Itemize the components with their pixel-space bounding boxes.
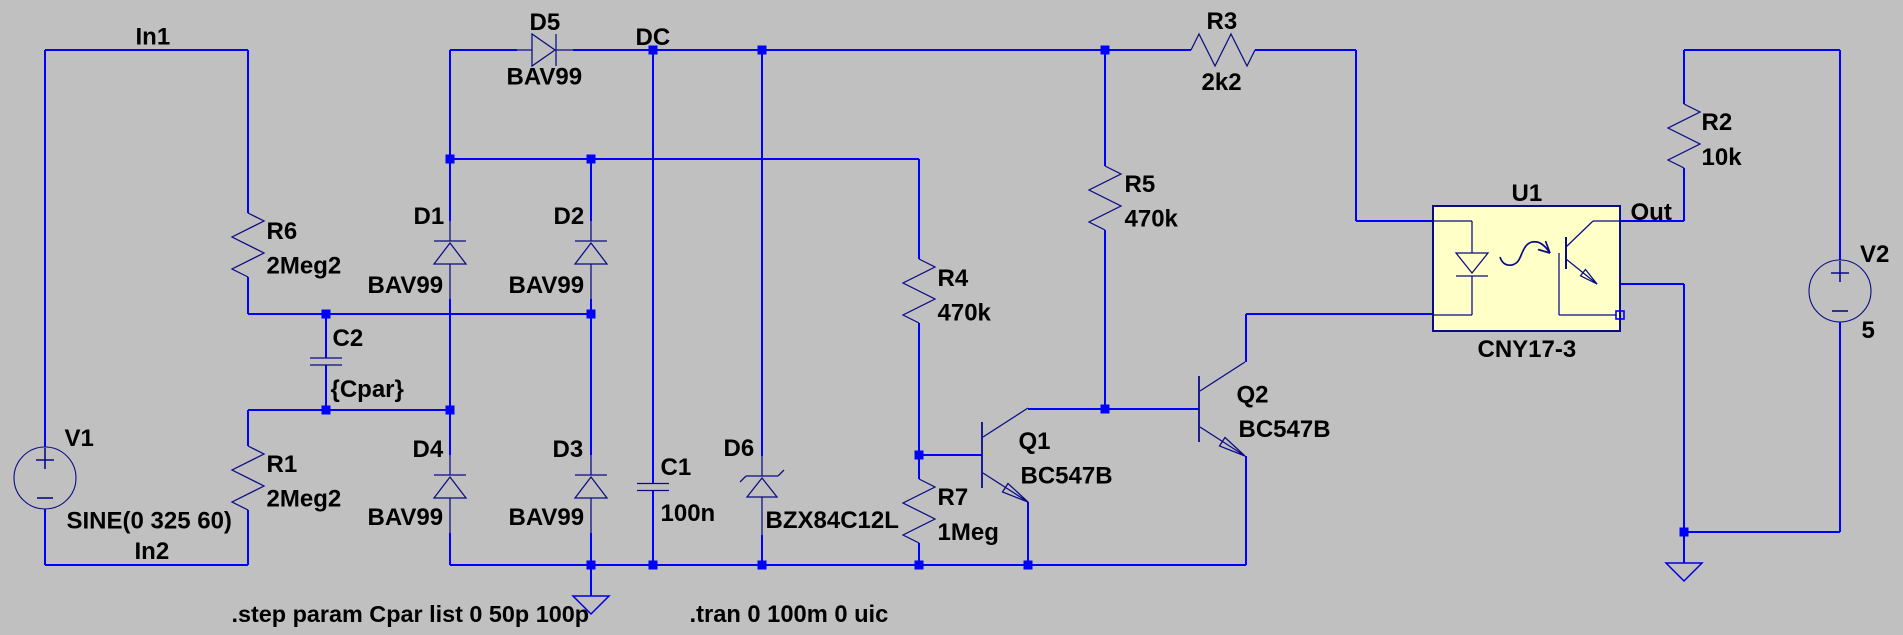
svg-text:Q2: Q2 [1237,382,1269,409]
svg-text:BAV99: BAV99 [509,272,585,299]
svg-text:.step param Cpar list 0 50p 10: .step param Cpar list 0 50p 100p [232,601,590,627]
svg-text:In2: In2 [135,538,170,565]
svg-text:BAV99: BAV99 [368,272,444,299]
svg-text:SINE(0 325 60): SINE(0 325 60) [67,508,232,535]
svg-text:CNY17-3: CNY17-3 [1478,336,1577,363]
svg-text:R2: R2 [1702,109,1733,136]
svg-text:D6: D6 [724,435,755,462]
svg-text:C2: C2 [333,325,364,352]
svg-text:R3: R3 [1207,8,1238,35]
svg-text:.tran 0 100m 0 uic: .tran 0 100m 0 uic [690,602,889,628]
svg-text:D2: D2 [554,203,585,230]
svg-text:{Cpar}: {Cpar} [331,376,404,403]
svg-text:C1: C1 [661,454,692,481]
svg-text:D3: D3 [553,436,584,463]
svg-text:V2: V2 [1860,241,1889,268]
svg-text:BAV99: BAV99 [509,504,585,531]
svg-text:R1: R1 [267,451,298,478]
svg-text:BZX84C12L: BZX84C12L [766,507,899,534]
svg-text:1Meg: 1Meg [938,519,999,546]
svg-text:R4: R4 [938,265,969,292]
svg-text:Out: Out [1631,199,1672,226]
svg-text:2k2: 2k2 [1202,69,1242,96]
svg-text:2Meg2: 2Meg2 [267,253,342,280]
svg-text:470k: 470k [1125,206,1179,233]
svg-text:R6: R6 [267,218,298,245]
svg-text:BC547B: BC547B [1021,463,1113,490]
svg-text:BAV99: BAV99 [507,64,583,91]
svg-text:V1: V1 [65,425,94,452]
svg-text:5: 5 [1862,317,1875,344]
svg-text:Q1: Q1 [1019,428,1051,455]
svg-text:2Meg2: 2Meg2 [267,486,342,513]
svg-text:BC547B: BC547B [1239,416,1331,443]
svg-text:In1: In1 [136,24,171,51]
svg-text:BAV99: BAV99 [368,504,444,531]
svg-text:10k: 10k [1702,144,1743,171]
svg-text:100n: 100n [661,500,716,527]
svg-text:DC: DC [636,24,671,51]
svg-text:D5: D5 [530,9,561,36]
svg-text:D4: D4 [413,436,444,463]
svg-text:U1: U1 [1512,180,1543,207]
svg-text:R7: R7 [938,484,969,511]
svg-text:R5: R5 [1125,171,1156,198]
svg-text:D1: D1 [414,203,445,230]
svg-text:470k: 470k [938,300,992,327]
